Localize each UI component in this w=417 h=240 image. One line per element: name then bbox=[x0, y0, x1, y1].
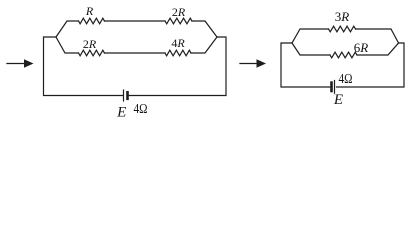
resistor R5 (3R, equivalent top) bbox=[329, 26, 356, 32]
svg-text:2R: 2R bbox=[83, 37, 97, 51]
wire: left circuit left fork stub, left side, bottom-left to battery bbox=[44, 37, 124, 96]
battery E (left circuit, with internal resistance 4 ohm) bbox=[124, 90, 128, 101]
svg-text:E: E bbox=[116, 105, 126, 121]
wire: left circuit top branch right lead and diagonal bbox=[192, 21, 217, 37]
svg-text:4Ω: 4Ω bbox=[339, 72, 353, 87]
resistor R4 (4R, bottom branch right) bbox=[165, 50, 191, 56]
wire: right circuit top branch left diagonal and lead bbox=[292, 29, 329, 43]
svg-text:6R: 6R bbox=[354, 40, 369, 55]
arrow (middle, reduces-to arrow) bbox=[240, 59, 266, 68]
wire: left circuit bottom branch left diagonal and lead bbox=[56, 37, 79, 53]
wire: right circuit bottom branch right lead and diagonal bbox=[357, 43, 399, 55]
arrow (left input arrow) bbox=[7, 59, 34, 68]
wire: right circuit top branch right lead and diagonal bbox=[356, 29, 399, 43]
resistor R6 (6R, equivalent bottom) bbox=[330, 52, 357, 58]
svg-text:4Ω: 4Ω bbox=[134, 102, 148, 117]
wire: right circuit right fork stub, right side, bottom-right to battery bbox=[337, 43, 405, 87]
resistor R3 (2R, bottom branch left) bbox=[79, 50, 105, 56]
wire: left circuit bottom branch right lead and diagonal bbox=[191, 37, 217, 53]
wire: right circuit bottom branch left diagonal and lead bbox=[292, 43, 330, 55]
battery E (right circuit, with internal resistance 4 ohm) bbox=[332, 81, 335, 94]
wire: right circuit left fork stub, left side, bottom-left to battery bbox=[281, 43, 331, 87]
resistor R2 (2R, top branch right) bbox=[165, 18, 192, 24]
svg-text:2R: 2R bbox=[172, 5, 186, 19]
svg-text:4R: 4R bbox=[171, 36, 185, 50]
svg-text:E: E bbox=[333, 92, 343, 108]
svg-text:3R: 3R bbox=[335, 9, 350, 24]
resistor R1 (R, top branch left) bbox=[79, 18, 105, 24]
wire: left circuit bottom branch middle segment bbox=[105, 52, 166, 54]
wire: left circuit top branch middle segment bbox=[105, 20, 166, 22]
svg-text:R: R bbox=[85, 4, 94, 18]
wire: left circuit top branch left diagonal and lead bbox=[56, 21, 79, 37]
wire: left circuit right fork stub, right side, bottom-right to battery bbox=[129, 37, 226, 96]
